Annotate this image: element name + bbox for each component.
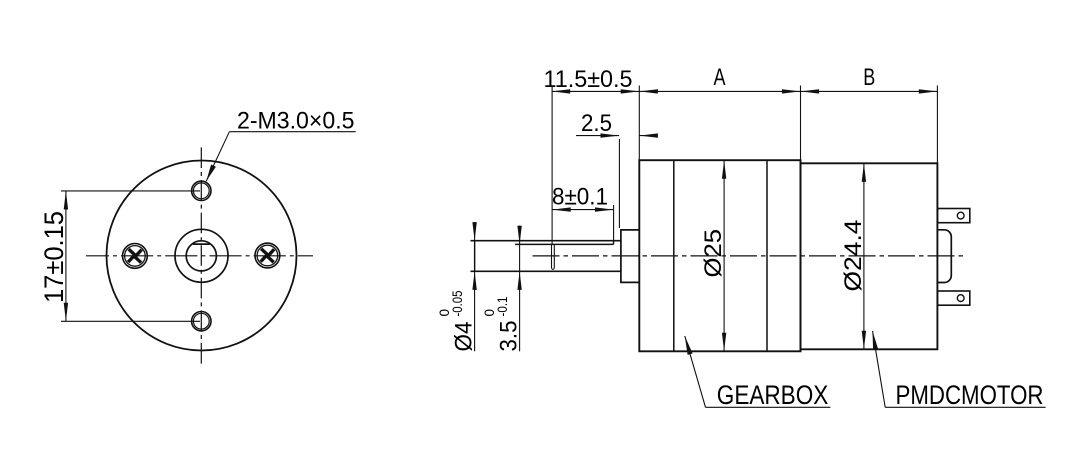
terminal hole top [957, 212, 964, 219]
tapped hole bottom (minor circle) [193, 313, 209, 329]
dim Ø24.4 arrow top [862, 163, 866, 182]
dim 17±0.15 arrow top [64, 191, 68, 210]
svg-text:PMDCMOTOR: PMDCMOTOR [896, 380, 1044, 410]
label PMDCMOTOR leader [873, 331, 886, 407]
terminal tab bottom [937, 291, 969, 305]
shaft tip edge [474, 241, 476, 272]
arrows at gearbox/motor joint (A right + B left) [782, 89, 801, 93]
svg-text:A: A [714, 64, 726, 91]
extension line shaft flat (left of 11.5 and 8) [551, 86, 553, 245]
shaft top line [471, 240, 621, 242]
tapped hole top (outer thread circle) [192, 181, 211, 200]
dim 3.5 vertical line [519, 226, 521, 352]
side centerline [533, 255, 965, 257]
gearbox inner line right [766, 160, 768, 351]
label GEARBOX leader [685, 336, 706, 407]
arrow 11.5 left [552, 89, 571, 93]
arrows at gearbox face (11.5 right + A left) [621, 89, 640, 93]
flat end connector [613, 241, 615, 245]
screw left cross recess [122, 243, 148, 269]
dim Ø25 arrow bottom [722, 333, 726, 352]
label GEARBOX underline [706, 406, 831, 408]
dim Ø4 arrow bottom (tip at shaft bottom, flare down) [472, 271, 476, 290]
dim 2.5 arrows (outside) [601, 133, 620, 137]
dim 8±0.1 right extension [613, 205, 615, 244]
svg-text:3.5: 3.5 [496, 321, 523, 352]
dim Ø25 arrow top [722, 160, 726, 179]
text Ø4 0/-0.05 rotated [437, 291, 478, 352]
svg-text:2.5: 2.5 [581, 110, 612, 137]
screw right outer circle [255, 243, 280, 268]
terminal tab top [937, 209, 969, 223]
shaft circle [186, 241, 216, 271]
svg-text:11.5±0.5: 11.5±0.5 [544, 66, 633, 93]
dim 2.5 extension line [618, 139, 620, 228]
svg-text:Ø24.4: Ø24.4 [840, 220, 867, 292]
label PMDCMOTOR leader arrow [873, 331, 879, 350]
dim 3.5 arrow bottom [517, 271, 521, 290]
dim 8±0.1 arrows [552, 207, 571, 211]
dim Ø4 vertical line [474, 222, 476, 351]
dim 17±0.15 arrow bottom [64, 303, 68, 322]
svg-text:2-M3.0×0.5: 2-M3.0×0.5 [237, 108, 355, 135]
label 2-M3.0×0.5 underline [229, 131, 355, 133]
dim Ø25 dimension line [723, 160, 725, 351]
label 2-M3.0×0.5 leader arrow [206, 165, 216, 182]
svg-text:-0.05: -0.05 [450, 291, 465, 317]
brush cap [937, 230, 951, 283]
terminal hole bottom [957, 295, 964, 302]
motor body outline circle [107, 161, 297, 351]
top dimension line 11.5/A/B [552, 90, 938, 92]
screw left inner circle [125, 246, 146, 267]
label GEARBOX leader arrow [685, 336, 693, 355]
dim 17±0.15 extension line top [61, 190, 200, 192]
gearbox inner line left [673, 160, 675, 351]
extension gearbox left face up [638, 86, 640, 161]
dim 17±0.15 extension line bottom [61, 320, 200, 322]
dim 2.5 dimension line with underline [576, 135, 619, 137]
gearbox body [639, 160, 800, 351]
svg-text:-0.1: -0.1 [495, 297, 510, 317]
vertical centerline [200, 144, 202, 368]
dim 3.5 arrow top (tip at flat line) [517, 226, 521, 245]
svg-text:Ø4: Ø4 [451, 322, 478, 352]
label PMDCMOTOR underline [885, 406, 1045, 408]
horizontal centerline [86, 255, 313, 257]
dim Ø4 arrow top (tip at shaft top, flare up) [472, 222, 476, 241]
extension motor right face up [936, 86, 938, 164]
dim 17±0.15 dimension line [65, 191, 67, 321]
dim Ø24.4 dimension line [863, 163, 865, 349]
flat run-out slot [552, 244, 555, 269]
label 2-M3.0×0.5 leader line [206, 132, 229, 181]
screw right inner circle [257, 245, 278, 266]
motor body [801, 163, 938, 349]
svg-text:Ø25: Ø25 [700, 229, 727, 278]
svg-text:17±0.15: 17±0.15 [39, 211, 69, 303]
tapped hole top (minor circle) [193, 183, 209, 199]
svg-text:B: B [863, 64, 875, 91]
arrow B right [919, 89, 938, 93]
text 3.5 0/-0.1 rotated [482, 297, 523, 352]
shaft flat line [515, 243, 613, 245]
extension gearbox/motor joint up [800, 86, 802, 164]
screw right cross recess [254, 242, 280, 268]
dim 8±0.1 dimension line [552, 209, 614, 211]
shaft bottom line [471, 270, 621, 272]
boss circle (center pilot) [175, 229, 228, 282]
boss rectangle [621, 230, 639, 283]
dim Ø24.4 arrow bottom [862, 331, 866, 350]
svg-text:8±0.1: 8±0.1 [552, 184, 608, 211]
shaft flat chord [193, 243, 210, 245]
svg-text:GEARBOX: GEARBOX [717, 380, 829, 410]
tapped hole bottom (outer thread circle) [192, 312, 211, 331]
screw left outer circle [122, 244, 147, 269]
